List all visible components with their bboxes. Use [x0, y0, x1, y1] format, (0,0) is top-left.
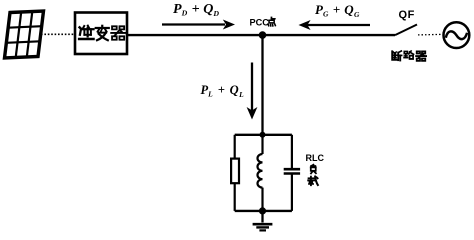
resistor R	[231, 159, 239, 184]
wire capacitor branch top	[291, 135, 293, 169]
svg-text:RLC: RLC	[306, 153, 325, 163]
label PCC点	[250, 17, 276, 27]
ground stem	[261, 211, 263, 223]
arrow PG+QG flow left	[299, 20, 371, 30]
wire capacitor branch bottom	[291, 174, 293, 211]
svg-text:PD + QD: PD + QD	[173, 2, 219, 18]
inverter box	[75, 13, 127, 55]
wire resistor branch top	[234, 135, 236, 159]
wire main bus from inverter to breaker	[127, 34, 395, 36]
svg-text:PG + QG: PG + QG	[315, 2, 360, 19]
wire inductor branch bottom	[261, 188, 263, 211]
arrow PL+QL flow down	[247, 63, 258, 120]
capacitor C plates	[284, 169, 300, 173]
inductor L coil	[257, 154, 262, 188]
circuit breaker QF blade	[395, 25, 417, 36]
AC source sine wave	[446, 31, 467, 39]
label RLC load	[306, 153, 325, 185]
ground bars	[253, 224, 273, 230]
AC source G circle	[444, 22, 470, 48]
wire load top rail	[235, 134, 292, 136]
wire resistor branch bottom	[234, 183, 236, 211]
arrow PD+QD flow right	[162, 20, 235, 30]
svg-text:QF: QF	[399, 9, 415, 21]
label 断路器	[392, 51, 426, 61]
svg-text:PCC: PCC	[250, 17, 270, 27]
node bottom rail junction	[259, 207, 266, 214]
node top rail junction	[260, 132, 266, 138]
wire load bottom rail	[235, 210, 292, 212]
wire inductor branch top	[261, 135, 263, 154]
solar PV array	[5, 11, 44, 58]
node PCC junction dot	[259, 31, 267, 39]
inverter label 逆变器	[79, 26, 125, 41]
svg-text:PL + QL: PL + QL	[201, 83, 245, 99]
wire dashed breaker to source	[418, 33, 441, 36]
wire PCC down to load	[261, 35, 263, 136]
wire PV to inverter	[41, 33, 75, 35]
